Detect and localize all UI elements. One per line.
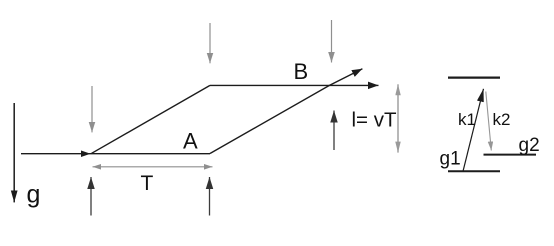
svg-text:T: T: [141, 172, 154, 195]
excited level line: [448, 76, 500, 78]
lower path segment A: [91, 153, 211, 155]
photon arrow k2: [486, 92, 492, 151]
separation double arrow l: [397, 84, 399, 152]
ground level g1 line: [448, 170, 500, 172]
upper diagonal path: [91, 85, 210, 153]
pulse up arrow 3: [333, 111, 335, 151]
svg-text:g: g: [27, 181, 41, 209]
photon arrow k1: [463, 89, 484, 172]
pulse down arrow 2: [209, 23, 211, 63]
pulse up arrow 1: [90, 177, 92, 216]
gravity vector g: [13, 103, 15, 202]
svg-text:g1: g1: [440, 149, 461, 170]
svg-text:g2: g2: [519, 135, 540, 156]
svg-text:k1: k1: [458, 110, 476, 129]
pulse down arrow 1: [91, 86, 93, 132]
level g2 line: [484, 154, 537, 156]
incoming trajectory arrow: [21, 153, 91, 155]
svg-text:B: B: [294, 59, 309, 84]
svg-text:k2: k2: [493, 110, 511, 129]
svg-text:A: A: [183, 129, 198, 154]
pulse down arrow 3: [331, 20, 333, 63]
interval double arrow T: [93, 166, 213, 168]
lower diagonal output arrow: [210, 69, 362, 154]
pulse up arrow 2: [209, 177, 211, 216]
svg-text:l= vT: l= vT: [352, 109, 397, 132]
upper path B with output arrow: [210, 84, 379, 86]
